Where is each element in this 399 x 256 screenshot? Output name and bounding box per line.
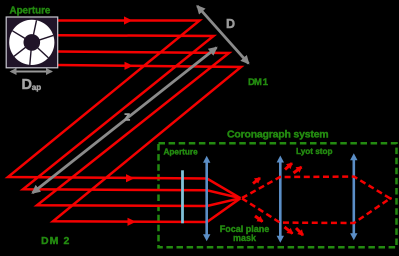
svg-text:z: z — [124, 110, 130, 124]
svg-text:D: D — [22, 77, 32, 93]
svg-text:Lyot stop: Lyot stop — [296, 147, 333, 156]
svg-text:Coronagraph system: Coronagraph system — [227, 129, 328, 141]
svg-text:ap: ap — [32, 83, 41, 92]
svg-text:mask: mask — [233, 233, 257, 243]
svg-text:DM 1: DM 1 — [248, 77, 269, 88]
svg-text:Aperture: Aperture — [10, 5, 51, 16]
svg-text:Aperture: Aperture — [164, 148, 199, 157]
svg-text:DM 2: DM 2 — [41, 235, 71, 247]
svg-text:D: D — [226, 17, 235, 31]
